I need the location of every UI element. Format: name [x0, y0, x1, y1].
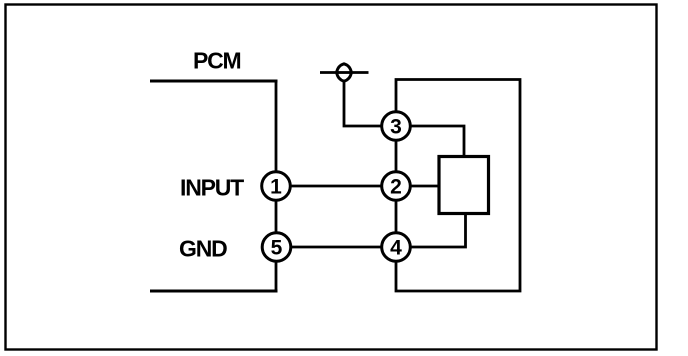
- connector pin 5: [262, 233, 291, 262]
- svg-text:1: 1: [270, 176, 282, 199]
- wire pin3 to component top: [410, 126, 464, 157]
- power symbol (battery feed): [320, 64, 369, 81]
- wire pin1 to pin2 (INPUT line): [276, 185, 396, 188]
- component box (sensor element): [439, 157, 489, 214]
- svg-text:5: 5: [271, 237, 283, 260]
- connector pin 1: [262, 172, 291, 201]
- svg-text:2: 2: [390, 176, 402, 199]
- wire power symbol down and right to pin 3: [344, 81, 382, 126]
- wire pin4 to component bottom: [410, 213, 466, 247]
- svg-text:PCM: PCM: [193, 48, 241, 74]
- wire PCM top stub: [150, 80, 278, 83]
- wire left vertical (PCM to pin 1 to pin 5): [275, 81, 278, 291]
- sensor outline box: [396, 80, 520, 292]
- wire pin2 to component left: [410, 185, 440, 188]
- connector pin 2: [382, 172, 411, 201]
- svg-text:INPUT: INPUT: [180, 175, 244, 201]
- svg-text:3: 3: [390, 116, 402, 139]
- svg-text:GND: GND: [179, 236, 227, 262]
- wire PCM bottom stub: [150, 290, 278, 293]
- svg-text:4: 4: [390, 237, 402, 260]
- wire pin5 to pin4 (GND line): [276, 246, 396, 249]
- connector pin 4: [382, 233, 411, 262]
- connector pin 3: [382, 112, 411, 141]
